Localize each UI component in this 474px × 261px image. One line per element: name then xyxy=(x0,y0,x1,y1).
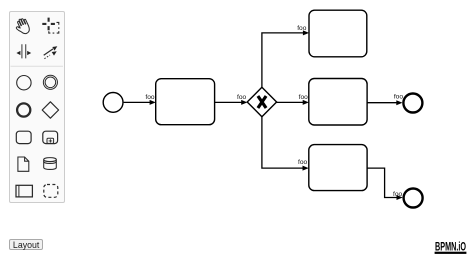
task icon xyxy=(16,131,31,143)
arrowhead G1->T2 xyxy=(303,30,309,35)
task T1 xyxy=(156,79,215,125)
gateway G1 xyxy=(247,87,276,116)
arrowhead T4->E2 xyxy=(397,195,403,200)
flow G1->T3 xyxy=(277,101,304,103)
arrowhead T1->G1 xyxy=(241,100,247,105)
arrowhead G1->T3 xyxy=(303,100,309,105)
intermediate event icon xyxy=(43,75,57,89)
flow start->T1 xyxy=(124,101,151,103)
arrowhead T3->E1 xyxy=(396,100,402,105)
svg-text:foo: foo xyxy=(393,191,402,198)
data object icon xyxy=(18,157,29,171)
svg-text:foo: foo xyxy=(298,159,307,166)
flow T3->E1 xyxy=(367,102,397,104)
global connect tool icon xyxy=(44,49,53,55)
svg-text:foo: foo xyxy=(145,94,154,101)
participant icon xyxy=(16,185,32,197)
gateway X marker xyxy=(258,96,266,108)
data store icon xyxy=(44,158,57,170)
lasso tool icon xyxy=(42,18,55,31)
hand tool icon xyxy=(13,17,31,36)
space tool icon xyxy=(22,44,26,58)
Layout button xyxy=(9,239,43,250)
arrowhead G1->T4 xyxy=(303,166,309,171)
flow T1->G1 xyxy=(215,101,243,103)
group icon xyxy=(44,185,58,198)
task T4 (bottom) xyxy=(309,145,367,191)
bpmn.io logo xyxy=(435,242,467,254)
subprocess icon xyxy=(43,131,58,143)
task T3 (middle) xyxy=(309,79,367,126)
task T2 (top) xyxy=(309,10,367,57)
palette container xyxy=(9,11,65,203)
end event E2 xyxy=(404,189,423,208)
palette separator xyxy=(11,65,64,67)
svg-text:foo: foo xyxy=(394,94,403,101)
flow G1->T2 xyxy=(262,33,304,87)
gateway icon xyxy=(42,102,58,118)
arrowhead start->T1 xyxy=(150,100,156,105)
start event xyxy=(103,93,123,113)
end event E1 xyxy=(403,94,422,113)
svg-text:foo: foo xyxy=(297,25,306,32)
start event icon xyxy=(17,76,31,90)
flow G1->T4 xyxy=(262,117,303,168)
svg-text:foo: foo xyxy=(237,94,246,101)
flow T4->E2 xyxy=(367,168,397,197)
end event icon xyxy=(17,103,30,116)
svg-text:foo: foo xyxy=(299,94,308,101)
